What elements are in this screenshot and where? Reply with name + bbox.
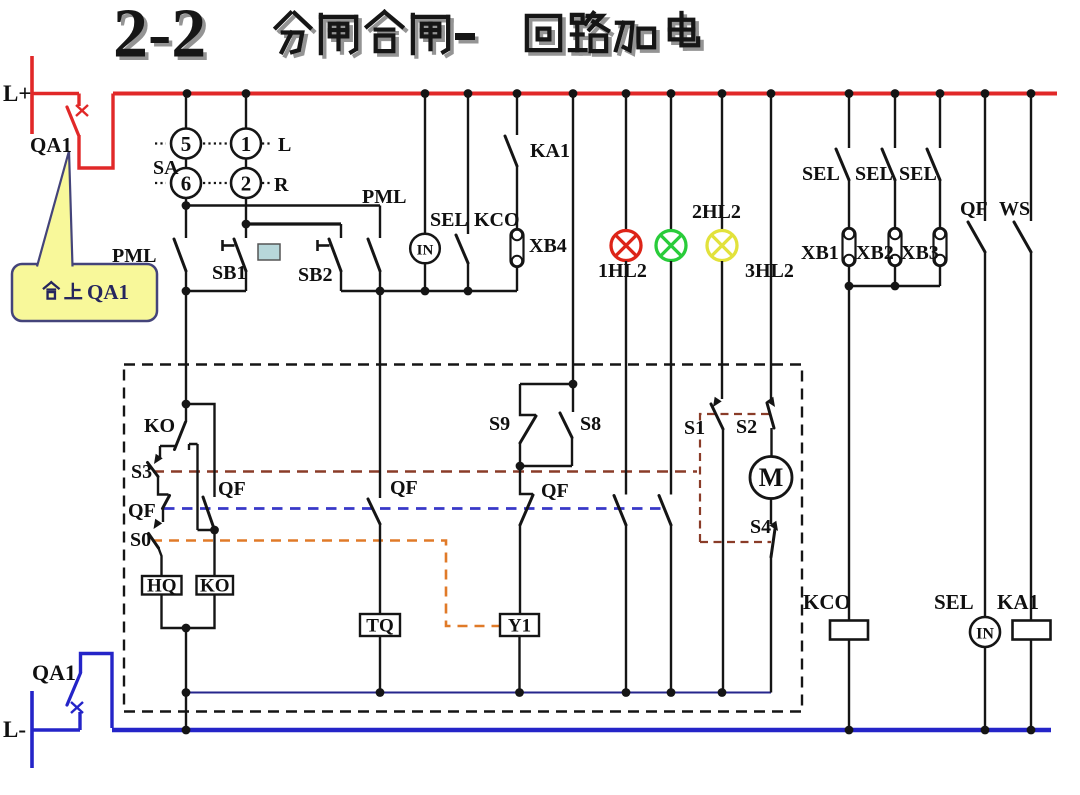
svg-text:5: 5	[181, 132, 192, 156]
svg-text:KCO: KCO	[803, 590, 851, 614]
svg-text:SB1: SB1	[212, 262, 246, 284]
svg-text:S1: S1	[684, 417, 705, 439]
svg-text:QF: QF	[960, 198, 988, 220]
svg-text:L-: L-	[3, 717, 26, 742]
svg-text:M: M	[759, 463, 784, 492]
svg-text:SA: SA	[153, 157, 179, 179]
svg-text:KA1: KA1	[530, 140, 570, 162]
svg-text:QA1: QA1	[30, 133, 72, 157]
svg-text:QF: QF	[541, 480, 569, 502]
svg-text:XB4: XB4	[529, 235, 567, 257]
svg-text:QF: QF	[218, 478, 246, 500]
svg-text:SEL: SEL	[430, 209, 468, 231]
svg-text:QA1: QA1	[32, 660, 76, 685]
svg-text:XB3: XB3	[901, 242, 939, 264]
svg-text:IN: IN	[976, 626, 994, 643]
svg-text:PML: PML	[112, 245, 156, 267]
svg-text:PML: PML	[362, 186, 406, 208]
svg-text:QF: QF	[390, 477, 418, 499]
svg-text:S0: S0	[130, 529, 151, 551]
svg-text:XB2: XB2	[856, 242, 894, 264]
svg-text:1: 1	[241, 132, 252, 156]
svg-text:2HL2: 2HL2	[692, 201, 741, 223]
svg-text:WS: WS	[999, 198, 1030, 220]
svg-text:XB1: XB1	[801, 242, 839, 264]
svg-text:KO: KO	[144, 415, 175, 437]
svg-text:SEL: SEL	[802, 163, 840, 185]
svg-text:L+: L+	[3, 81, 31, 106]
svg-text:SEL: SEL	[855, 163, 893, 185]
svg-text:6: 6	[181, 172, 192, 196]
svg-text:S9: S9	[489, 413, 510, 435]
svg-text:TQ: TQ	[366, 615, 393, 636]
svg-text:S8: S8	[580, 413, 601, 435]
svg-text:KCO: KCO	[474, 209, 520, 231]
svg-text:KA1: KA1	[997, 590, 1039, 614]
svg-text:SB2: SB2	[298, 264, 332, 286]
svg-text:3HL2: 3HL2	[745, 260, 794, 282]
svg-text:HQ: HQ	[147, 576, 177, 597]
svg-text:R: R	[274, 174, 289, 196]
svg-text:Y1: Y1	[508, 615, 531, 636]
svg-text:QF: QF	[128, 500, 156, 522]
svg-text:SEL: SEL	[934, 590, 974, 614]
svg-text:2-2: 2-2	[113, 0, 206, 73]
svg-text:2: 2	[241, 172, 252, 196]
svg-text:KO: KO	[200, 576, 230, 597]
svg-text:L: L	[278, 134, 291, 156]
svg-text:S4: S4	[750, 516, 771, 538]
svg-text:S2: S2	[736, 416, 757, 438]
svg-text:IN: IN	[417, 243, 434, 259]
svg-text:SEL: SEL	[899, 163, 937, 185]
svg-text:S3: S3	[131, 461, 152, 483]
svg-text:QA1: QA1	[87, 280, 129, 304]
svg-text:1HL2: 1HL2	[598, 260, 647, 282]
